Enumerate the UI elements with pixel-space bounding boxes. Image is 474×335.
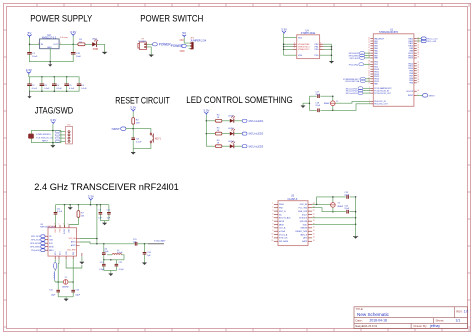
svg-text:1.0: 1.0 bbox=[464, 309, 469, 313]
RF main line bbox=[90, 243, 135, 245]
svg-text:POWER SWITCH: POWER SWITCH bbox=[140, 13, 203, 23]
LED4 bbox=[228, 141, 235, 148]
RF wire ANT1 bbox=[80, 238, 97, 240]
svg-text:4.7uF: 4.7uF bbox=[57, 211, 63, 213]
svg-text:34: 34 bbox=[417, 47, 419, 49]
svg-text:10uF: 10uF bbox=[32, 56, 38, 58]
svg-text:EasyEDA v5.9.31: EasyEDA v5.9.31 bbox=[356, 324, 378, 328]
svg-text:REV:: REV: bbox=[456, 309, 463, 313]
ground symbol decoupling bbox=[27, 91, 31, 98]
svg-text:POWER SUPPLY: POWER SUPPLY bbox=[30, 13, 92, 23]
wire LED4 to flag bbox=[234, 145, 242, 147]
svg-text:0.1uF: 0.1uF bbox=[136, 141, 142, 143]
net flag SPI1-SCK (nRF) bbox=[31, 238, 48, 241]
svg-text:SPI1-SCK: SPI1-SCK bbox=[350, 58, 360, 60]
net flag pin2 bbox=[55, 134, 60, 136]
capacitor C17 (top) bbox=[315, 92, 320, 98]
svg-text:BOOT1_A25: BOOT1_A25 bbox=[279, 217, 291, 220]
svg-text:10K: 10K bbox=[136, 122, 140, 124]
net flag SPI1-MISO (nRF) bbox=[30, 245, 48, 248]
U3 top pin numbers bbox=[54, 223, 69, 225]
svg-text:44: 44 bbox=[417, 90, 419, 92]
svg-text:3.3V: 3.3V bbox=[203, 109, 209, 113]
net flag SPI1-NCS bbox=[349, 63, 371, 67]
wire lower network bbox=[104, 259, 124, 261]
IC U3 nRF24L01 body bbox=[48, 228, 77, 256]
svg-text:XC2: XC2 bbox=[55, 252, 57, 256]
svg-text:23: 23 bbox=[417, 67, 419, 69]
svg-text:28: 28 bbox=[417, 79, 419, 81]
svg-text:22pF: 22pF bbox=[315, 94, 320, 96]
wire crystal right vertical bbox=[332, 96, 334, 110]
resistor R6 bbox=[215, 140, 222, 148]
svg-text:5V: 5V bbox=[182, 31, 186, 35]
svg-text:MISO: MISO bbox=[49, 250, 54, 252]
wire U5 row1 to crystal bbox=[312, 203, 330, 205]
svg-text:PA8: PA8 bbox=[374, 57, 377, 60]
svg-text:0.1uF: 0.1uF bbox=[57, 88, 63, 90]
ground symbol reset bbox=[131, 148, 135, 154]
svg-text:RESET_N33: RESET_N33 bbox=[296, 231, 308, 233]
capacitor C20 (bottom) bbox=[344, 206, 349, 214]
svg-text:11: 11 bbox=[272, 237, 274, 239]
svg-text:5V: 5V bbox=[28, 31, 32, 35]
junction VDD rail bbox=[96, 204, 98, 206]
power flag 3.3V decoupling rail bbox=[26, 68, 32, 74]
wire switch to bottom rail bbox=[133, 144, 151, 149]
wire decoupling bottom rail bbox=[30, 90, 80, 92]
junction bottom of box bbox=[52, 142, 54, 144]
svg-text:3: 3 bbox=[272, 210, 273, 212]
svg-text:10: 10 bbox=[368, 37, 370, 39]
capacitor C12 bbox=[107, 205, 112, 221]
svg-text:PD1-OSC_OUT: PD1-OSC_OUT bbox=[374, 104, 388, 106]
svg-text:POWER: POWER bbox=[138, 41, 146, 43]
net flag MCU-xLED3 bbox=[242, 144, 264, 148]
junction row2 bbox=[206, 133, 208, 135]
wire crystal caps bottom bbox=[58, 296, 73, 298]
wire R1 to LED1 bbox=[85, 43, 92, 45]
svg-text:1: 1 bbox=[59, 223, 60, 225]
svg-text:21: 21 bbox=[368, 68, 370, 70]
svg-text:8MHZ: 8MHZ bbox=[324, 103, 330, 105]
svg-text:PS4-nIRQ: PS4-nIRQ bbox=[349, 64, 359, 66]
wire led rail vertical bbox=[205, 115, 207, 146]
ground symbol crystal Y2 bbox=[64, 297, 68, 301]
wire up to loop top bbox=[317, 197, 356, 205]
capacitor C11 bbox=[54, 205, 63, 228]
wire crystal bottom to U1 OSC_OUT bbox=[333, 104, 371, 111]
crystal Y2 bbox=[62, 277, 70, 288]
capacitor C1 bbox=[28, 52, 38, 58]
svg-text:MCU-xLED3: MCU-xLED3 bbox=[249, 144, 264, 148]
svg-text:0.1uF: 0.1uF bbox=[81, 88, 87, 90]
svg-text:NRST: NRST bbox=[42, 140, 49, 142]
net flag POWER (input) bbox=[153, 43, 172, 47]
wire crystal loop bottom bbox=[309, 109, 332, 111]
capacitor C18 (bottom) bbox=[315, 103, 320, 113]
svg-text:ANT2: ANT2 bbox=[71, 244, 76, 247]
capacitor C2 bbox=[28, 77, 38, 91]
svg-text:6: 6 bbox=[272, 220, 273, 222]
U5 pins bbox=[272, 203, 315, 243]
svg-text:VDD 3.3V: VDD 3.3V bbox=[48, 226, 57, 228]
svg-text:17: 17 bbox=[313, 227, 315, 229]
svg-text:ON: ON bbox=[180, 38, 184, 42]
svg-text:0.1uF: 0.1uF bbox=[32, 88, 38, 90]
junction crystal bottom bbox=[332, 211, 334, 213]
wire R2 to node bbox=[132, 124, 134, 137]
ground symbol caps bbox=[102, 221, 106, 226]
svg-text:Date:: Date: bbox=[356, 319, 363, 323]
svg-text:PD1-+B5: PD1-+B5 bbox=[427, 41, 437, 43]
svg-text:TCK SWCLK-1.8: TCK SWCLK-1.8 bbox=[36, 137, 53, 139]
title block outer box bbox=[354, 307, 468, 329]
svg-text:CLK_A: CLK_A bbox=[279, 227, 286, 230]
programmer symbol (dark red plug) bbox=[28, 134, 34, 139]
svg-text:20: 20 bbox=[368, 65, 370, 67]
svg-text:14: 14 bbox=[313, 237, 315, 239]
U3 interior pin names right bbox=[67, 237, 76, 251]
inductor L2 bbox=[107, 254, 124, 260]
ground symbol crystal1 bbox=[301, 106, 305, 108]
junction crystal gnd tap bbox=[309, 102, 311, 104]
wire crystal vertical segments bbox=[332, 197, 334, 212]
LED2 bbox=[228, 115, 235, 122]
svg-text:DVDD: DVDD bbox=[64, 228, 66, 234]
svg-text:25: 25 bbox=[417, 72, 419, 74]
svg-text:NRST: NRST bbox=[112, 127, 120, 131]
svg-text:NRST: NRST bbox=[408, 95, 414, 97]
power flag 5V jumper bbox=[182, 31, 186, 37]
wires U4 right to rail bbox=[320, 44, 332, 61]
svg-text:5: 5 bbox=[272, 217, 273, 219]
wire 5V to jumper pin1 bbox=[184, 38, 188, 44]
net flag MCU-xLED3 bbox=[346, 92, 371, 96]
svg-text:0.1uF: 0.1uF bbox=[69, 88, 75, 90]
IC U5 body bbox=[278, 201, 308, 246]
svg-text:MOSI: MOSI bbox=[279, 221, 285, 223]
svg-text:FLASH-S: FLASH-S bbox=[288, 198, 298, 201]
resistor R2 bbox=[132, 118, 140, 125]
svg-text:15: 15 bbox=[313, 233, 315, 235]
svg-text:GPIO48: GPIO48 bbox=[300, 221, 308, 223]
junction row1 split bbox=[316, 204, 318, 206]
svg-text:GND33: GND33 bbox=[300, 228, 308, 230]
ferrite bead L1 (blue) bbox=[54, 259, 57, 282]
jumper JP1 header bbox=[189, 38, 207, 50]
svg-text:15: 15 bbox=[368, 49, 370, 51]
VDD_PA ground wire bbox=[81, 256, 83, 261]
ground symbol lower network bbox=[109, 271, 113, 277]
net flag pin3 bbox=[55, 137, 60, 139]
wire crystal loop left vertical bbox=[308, 96, 310, 110]
shunt capacitor C13 bbox=[99, 260, 105, 271]
LED3 bbox=[228, 128, 235, 135]
U3 bottom pin stubs bbox=[55, 253, 82, 259]
svg-text:Drawn By:: Drawn By: bbox=[414, 324, 428, 328]
wire 5V down bbox=[29, 37, 31, 51]
junctions right rail bbox=[355, 196, 357, 225]
wire 3.3V flag down bbox=[72, 36, 74, 51]
svg-text:16: 16 bbox=[313, 230, 315, 232]
junction input bbox=[29, 44, 31, 46]
net flag MCU-IRQ (nRF) bbox=[31, 249, 48, 252]
crystal loop top wire bbox=[55, 281, 73, 283]
svg-text:8: 8 bbox=[272, 227, 273, 229]
svg-text:3.3V: 3.3V bbox=[130, 106, 136, 110]
svg-text:In-Max ANT: In-Max ANT bbox=[154, 239, 166, 242]
capacitor C22 bbox=[49, 282, 60, 297]
net flag SPI1-SCK bbox=[350, 56, 371, 60]
svg-text:7: 7 bbox=[272, 223, 273, 225]
svg-text:13: 13 bbox=[368, 45, 370, 47]
svg-text:2: 2 bbox=[272, 207, 273, 209]
U3 interior pin names left bbox=[49, 236, 54, 252]
svg-text:21: 21 bbox=[417, 62, 419, 64]
connector P1 bbox=[138, 39, 147, 50]
junction reset node bbox=[132, 128, 134, 130]
svg-text:VDD_NRF: VDD_NRF bbox=[67, 250, 76, 252]
wire to gnd bbox=[303, 103, 309, 106]
svg-text:JTAG/SWD: JTAG/SWD bbox=[35, 106, 73, 116]
svg-text:STM32F103C8T6: STM32F103C8T6 bbox=[379, 31, 399, 34]
ground symbol U4 bbox=[329, 61, 333, 63]
svg-text:NRST: NRST bbox=[429, 96, 436, 98]
net flag pin1 bbox=[55, 131, 60, 133]
svg-text:OUT: OUT bbox=[53, 44, 58, 46]
push button KEY1 bbox=[150, 132, 161, 144]
svg-text:LED2: LED2 bbox=[228, 115, 234, 117]
power flag 5V bbox=[28, 31, 32, 37]
svg-text:LED1: LED1 bbox=[92, 39, 98, 41]
wire R4 to LED2 bbox=[222, 120, 230, 122]
svg-text:27: 27 bbox=[417, 77, 419, 79]
title block row lines bbox=[354, 318, 468, 324]
net flag MCU-xLED1 bbox=[242, 119, 264, 123]
svg-text:3: 3 bbox=[38, 43, 39, 45]
wire U5 row2 bend to loop bottom bbox=[312, 208, 322, 212]
net flag MCU-xLED1 bbox=[346, 87, 371, 91]
IC U1 body bbox=[373, 34, 414, 107]
svg-text:SCLK: SCLK bbox=[302, 214, 308, 216]
wires flags to header P4 bbox=[60, 132, 65, 142]
wire regulator output bbox=[59, 43, 78, 45]
net flag POWER (jumper) bbox=[171, 44, 189, 48]
svg-text:LED CONTROL SOMETHING: LED CONTROL SOMETHING bbox=[186, 95, 292, 105]
svg-text:1: 1 bbox=[272, 203, 273, 205]
connector body box (green outline) bbox=[31, 131, 61, 143]
svg-text:OFF: OFF bbox=[180, 49, 186, 53]
net flag MCU-xLED2 bbox=[242, 132, 264, 136]
svg-text:VSS: VSS bbox=[298, 55, 303, 57]
junction RF line left bbox=[96, 243, 98, 245]
svg-text:8MHZ: 8MHZ bbox=[338, 206, 344, 208]
wire LED1 to ground bbox=[97, 44, 105, 52]
wire U5 row5 to rail bbox=[312, 217, 356, 219]
U4 left pin names bbox=[298, 37, 303, 57]
svg-text:OSC_IN: OSC_IN bbox=[300, 204, 308, 206]
svg-text:SPI1-SCK: SPI1-SCK bbox=[31, 240, 41, 242]
svg-text:GND: GND bbox=[47, 47, 52, 49]
svg-text:MISO: MISO bbox=[279, 224, 285, 226]
wire 3.3V down through connector bbox=[52, 124, 54, 145]
net flag STM8-SWIM bbox=[343, 77, 370, 81]
U4 right pin names bbox=[315, 44, 320, 57]
IC U4 body bbox=[297, 35, 320, 59]
power flag 3.3V nRF bbox=[88, 195, 94, 201]
series capacitor C15 bbox=[133, 239, 138, 246]
wire nRF top rail bbox=[56, 204, 109, 206]
connector cluster labels bbox=[36, 134, 53, 142]
svg-text:PC15-OSC32_OUT: PC15-OSC32_OUT bbox=[374, 93, 391, 95]
svg-text:VCCQ_A: VCCQ_A bbox=[279, 233, 288, 236]
svg-text:2018-04-18: 2018-04-18 bbox=[370, 319, 387, 323]
svg-text:26: 26 bbox=[417, 74, 419, 76]
svg-text:24: 24 bbox=[417, 69, 419, 71]
svg-text:22: 22 bbox=[313, 210, 315, 212]
svg-text:LED4: LED4 bbox=[228, 141, 234, 143]
svg-text:24: 24 bbox=[368, 75, 370, 77]
svg-text:AMS1117-3.3: AMS1117-3.3 bbox=[42, 36, 57, 39]
svg-text:21: 21 bbox=[313, 213, 315, 215]
wire decoupling top rail bbox=[29, 74, 79, 76]
wire C8 to bottom rail bbox=[132, 140, 134, 148]
RF wire to antenna bbox=[138, 243, 148, 245]
svg-text:STM8-SWIM-S: STM8-SWIM-S bbox=[36, 134, 51, 136]
svg-text:Y2: Y2 bbox=[65, 277, 67, 279]
svg-text:0.3 max: 0.3 max bbox=[60, 37, 69, 39]
net flag SPI1-MOSI bbox=[348, 52, 370, 56]
wire node to switch bbox=[133, 129, 151, 133]
net flag SPI1-NCS (nRF) bbox=[31, 235, 48, 238]
svg-text:3.3V: 3.3V bbox=[281, 28, 287, 32]
wire P1 pin1 bbox=[147, 43, 153, 45]
svg-text:18: 18 bbox=[368, 61, 370, 63]
matching network labels C14 L2 bbox=[104, 249, 123, 255]
svg-text:VDD: VDD bbox=[298, 37, 303, 39]
U4 right pin stubs bbox=[320, 44, 324, 49]
svg-text:7: 7 bbox=[294, 48, 295, 50]
svg-text:STM8T143AE: STM8T143AE bbox=[301, 32, 316, 35]
net flag SPI1-MOSI (nRF) bbox=[30, 242, 48, 245]
svg-text:MCU-xLED1: MCU-xLED1 bbox=[249, 119, 264, 123]
svg-text:10pF: 10pF bbox=[51, 295, 56, 297]
net flag PC14 top right bbox=[417, 39, 437, 43]
ground symbol VDD_PA bbox=[80, 262, 84, 264]
capacitor C8 bbox=[131, 138, 142, 143]
svg-text:Y3: Y3 bbox=[338, 203, 340, 205]
svg-text:XC1: XC1 bbox=[60, 252, 62, 256]
wire R6 to LED4 bbox=[222, 145, 230, 147]
U3 interior pin names bottom (vertical) bbox=[55, 251, 75, 255]
resistor R1 bbox=[78, 39, 85, 46]
svg-text:nCS-A: nCS-A bbox=[279, 230, 286, 233]
svg-text:MCU-xLED3: MCU-xLED3 bbox=[346, 93, 359, 95]
svg-text:VSSA/OSC2: VSSA/OSC2 bbox=[298, 48, 310, 51]
svg-text:SPI1-NCS: SPI1-NCS bbox=[31, 236, 41, 238]
svg-text:1M: 1M bbox=[81, 216, 84, 218]
power flag 3.3V U4 bbox=[281, 28, 287, 34]
wire R5 to LED3 bbox=[222, 133, 230, 135]
shunt capacitor C14 bbox=[102, 244, 106, 260]
wire U5 row7 to rail bbox=[312, 223, 356, 225]
junction top of box bbox=[52, 130, 54, 132]
row3 wire to R6 bbox=[206, 145, 215, 147]
svg-text:1/1: 1/1 bbox=[456, 319, 461, 323]
svg-text:Sheet:: Sheet: bbox=[436, 319, 445, 323]
capacitor C4 bbox=[53, 77, 63, 91]
title block column dividers bbox=[411, 307, 454, 329]
net flag SWCLK bbox=[345, 80, 370, 84]
junction 3.3V node bbox=[72, 44, 74, 46]
svg-text:22pF: 22pF bbox=[315, 105, 320, 107]
svg-text:RESET CIRCUIT: RESET CIRCUIT bbox=[115, 95, 170, 105]
capacitor C6 bbox=[77, 77, 87, 91]
svg-text:22: 22 bbox=[417, 65, 419, 67]
ground symbol LED bbox=[102, 52, 106, 54]
svg-text:29: 29 bbox=[417, 82, 419, 84]
U3 interior pin names top (vertical) bbox=[55, 228, 70, 234]
resistor R4 bbox=[215, 115, 222, 123]
power flag 3.3V leds bbox=[203, 109, 209, 115]
junction antenna shunt bbox=[144, 243, 146, 245]
net flag NRST right bbox=[417, 94, 436, 98]
row1 wire to R4 bbox=[206, 120, 215, 122]
capacitor C5 bbox=[65, 77, 75, 91]
svg-text:POWER: POWER bbox=[159, 43, 172, 47]
wire C10 bottom bbox=[72, 55, 74, 62]
wire crystal to U1 OSC_IN bbox=[335, 101, 370, 103]
ground symbol JTAG bbox=[51, 143, 55, 148]
svg-text:PWR: PWR bbox=[93, 49, 99, 51]
net flag pin4 bbox=[55, 140, 60, 142]
capacitor C10 bbox=[71, 52, 81, 58]
row2 wire to R5 bbox=[206, 133, 215, 135]
net flag NRST bbox=[112, 127, 134, 131]
capacitor C23 bbox=[71, 282, 80, 297]
wire 3.3V rail U4 bbox=[284, 34, 297, 55]
svg-text:22pF: 22pF bbox=[344, 208, 349, 210]
junctions decoupling bottom rail bbox=[41, 90, 67, 92]
wire loop bottom bbox=[322, 211, 356, 213]
junction ground rail bbox=[49, 61, 51, 63]
junction crystal right bbox=[72, 281, 74, 283]
svg-text:BCK-KNICT-AL: BCK-KNICT-AL bbox=[345, 80, 360, 83]
svg-text:22pF: 22pF bbox=[344, 194, 349, 196]
capacitor C3 bbox=[40, 77, 50, 91]
svg-text:2: 2 bbox=[68, 223, 69, 225]
junctions decoupling rail bbox=[41, 76, 67, 78]
ground symbol top rail bbox=[68, 205, 72, 210]
svg-text:PB4: PB4 bbox=[409, 83, 413, 85]
svg-text:RST_N: RST_N bbox=[279, 211, 286, 213]
svg-text:3.3V: 3.3V bbox=[50, 118, 56, 122]
svg-text:SPI GATE: SPI GATE bbox=[279, 240, 289, 243]
svg-text:19: 19 bbox=[313, 220, 315, 222]
capacitor C19 (top) bbox=[344, 192, 349, 199]
svg-text:VDD: VDD bbox=[303, 224, 308, 226]
crystal Y3 8MHz bbox=[330, 203, 343, 208]
svg-text:22: 22 bbox=[368, 70, 370, 72]
shunt capacitor C21 bbox=[115, 260, 125, 271]
junction crystal left bbox=[57, 281, 59, 283]
wire XC pins down bbox=[58, 259, 73, 282]
capacitor C9 bbox=[98, 205, 102, 221]
RF wire ANT2 bbox=[80, 242, 90, 244]
junction RF node bbox=[103, 243, 105, 245]
junction bottom right bbox=[332, 110, 334, 112]
